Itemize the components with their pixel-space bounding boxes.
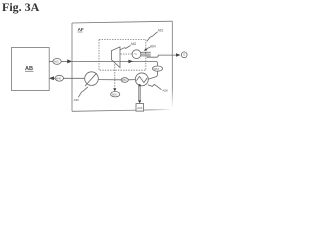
wire: pump A56 to AB via node W40 (64, 77, 85, 79)
arrowhead into AF (67, 59, 72, 63)
svg-text:A62: A62 (131, 42, 137, 46)
wire: generator output to grid (147, 55, 177, 57)
arrowhead into AB (49, 76, 54, 80)
leader A58 (148, 84, 162, 89)
svg-text:A58: A58 (162, 88, 168, 92)
box AB (12, 48, 50, 91)
svg-text:W51: W51 (122, 79, 128, 82)
node W51 (121, 78, 128, 83)
svg-text:W40: W40 (56, 77, 62, 80)
three phase lines (141, 51, 151, 53)
svg-text:A63: A63 (137, 106, 142, 110)
dashed wire to node W50 (114, 64, 116, 88)
turbine A62 (111, 47, 120, 68)
wire: pump to heat exchanger (98, 79, 121, 81)
node W40 (55, 75, 63, 81)
node W62 (53, 59, 61, 65)
figure caption (2, 0, 39, 15)
pump A56 (85, 72, 99, 86)
wire: turbine exhaust to heat exchanger (119, 61, 157, 79)
box A63 (136, 104, 144, 112)
svg-text:A61: A61 (158, 28, 164, 32)
heat exchanger A58 (135, 73, 148, 86)
feed line to turbine (72, 60, 119, 62)
double shaft wire to box A63 (138, 86, 140, 102)
svg-text:A56: A56 (74, 98, 80, 102)
svg-text:AF: AF (78, 27, 84, 32)
svg-text:~: ~ (134, 52, 137, 58)
wire: AB to AF via node W62 (49, 60, 53, 62)
turbine-generator unit A61 (dashed box) (99, 40, 146, 71)
shaft coupling (dashed) (121, 53, 132, 55)
node W50 (111, 92, 120, 97)
svg-text:W62: W62 (54, 61, 60, 64)
svg-text:A64: A64 (150, 44, 156, 48)
svg-text:W50: W50 (112, 93, 118, 96)
grid connector G (181, 52, 187, 58)
node W53 (153, 66, 163, 71)
svg-text:W53: W53 (154, 68, 160, 71)
leader A56 (78, 87, 88, 97)
motor-generator A64 (132, 50, 141, 59)
flow arrowhead (128, 60, 133, 64)
